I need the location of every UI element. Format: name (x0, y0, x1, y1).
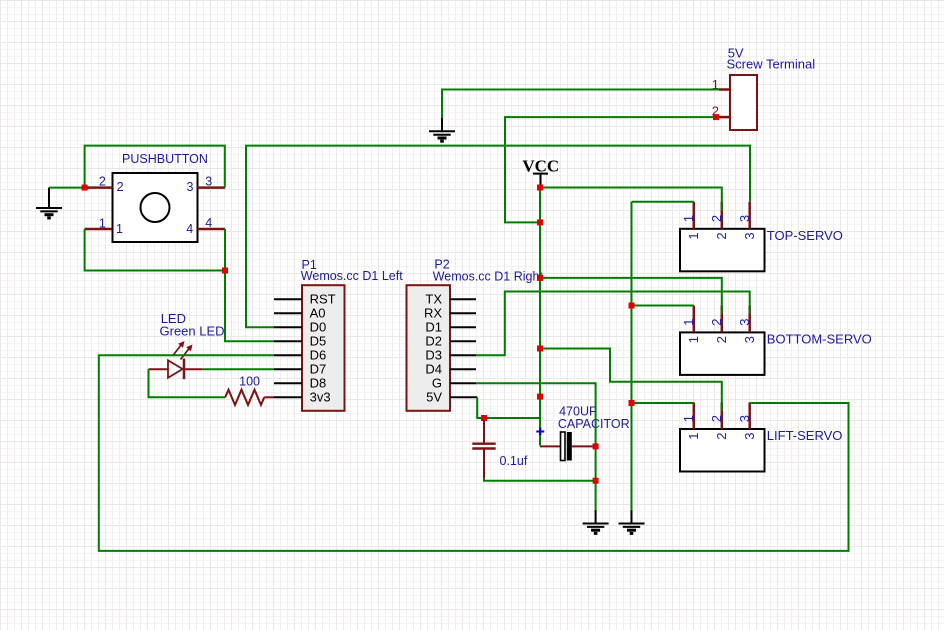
P1 pin A0 (274, 306, 326, 321)
svg-text:VCC: VCC (522, 156, 559, 175)
wire VCC vertical (539, 188, 541, 446)
P2 pin G (432, 376, 476, 391)
junction 0.1uf top (481, 415, 487, 421)
LIFT-SERVO pin 3 (737, 402, 757, 439)
svg-text:PUSHBUTTON: PUSHBUTTON (122, 152, 208, 166)
BOTTOM-SERVO pin 3 (737, 306, 757, 344)
LIFT-SERVO pin 2 (709, 402, 729, 439)
junction gnd net lift servo pin1 (629, 400, 635, 406)
ground symbol bottom right (servo gnd net) (619, 510, 645, 534)
wire to TOP-SERVO pin1 (632, 201, 694, 203)
wire pushbutton top loop pin2 to pin3 (85, 146, 225, 188)
resistor 100 (225, 374, 274, 405)
P2 pin 5V (426, 390, 477, 405)
svg-text:2: 2 (714, 232, 729, 239)
connector TOP-SERVO body (680, 228, 843, 271)
junction VCC P2 5V row (537, 394, 543, 400)
connector BOTTOM-SERVO body (680, 331, 872, 375)
svg-text:1: 1 (116, 222, 123, 236)
header P2 Wemos.cc D1 Right body (407, 258, 544, 411)
P1 pin RST (274, 292, 336, 307)
svg-text:100: 100 (239, 374, 260, 388)
junction VCC lift servo branch (537, 346, 543, 352)
svg-text:4: 4 (186, 222, 193, 236)
junction screw pin2 (713, 114, 719, 120)
svg-text:1: 1 (681, 215, 696, 222)
wire pushbutton pin1 and pin4 to D5 (85, 229, 225, 271)
svg-text:Wemos.cc D1 Right: Wemos.cc D1 Right (433, 269, 544, 283)
P2 pin D4 (425, 362, 476, 377)
P1 pin 3v3 (274, 390, 331, 405)
polarity plus mark 470UF (536, 428, 544, 436)
TOP-SERVO pin 3 (737, 202, 757, 240)
svg-text:2: 2 (709, 415, 724, 422)
svg-text:3: 3 (742, 433, 757, 440)
BOTTOM-SERVO pin 2 (709, 306, 729, 344)
connector LIFT-SERVO body (680, 428, 842, 472)
wire to LIFT-SERVO pin1 (632, 402, 694, 404)
screw terminal 5V body (727, 45, 816, 130)
svg-text:2: 2 (99, 174, 106, 188)
BOTTOM-SERVO pin 1 (681, 306, 701, 344)
pushbutton pin 1 stub (85, 217, 123, 236)
P1 pin D7 (274, 362, 326, 377)
svg-text:2: 2 (117, 180, 124, 194)
svg-text:1: 1 (681, 415, 696, 422)
svg-text:2: 2 (714, 433, 729, 440)
P1 pin D5 (274, 334, 326, 349)
P1 pin D0 (274, 320, 326, 335)
svg-text:D0: D0 (310, 320, 327, 335)
capacitor 0.1uf (472, 418, 528, 481)
svg-text:RST: RST (310, 292, 336, 307)
wire LED anode to resistor (149, 369, 226, 397)
P2 pin D3 (425, 348, 476, 363)
junction gnd net bottom servo pin1 (629, 303, 635, 309)
svg-text:Screw Terminal: Screw Terminal (727, 57, 816, 72)
svg-text:D1: D1 (425, 320, 442, 335)
pushbutton pin 2 stub (85, 174, 124, 194)
pushbutton pin 4 stub (186, 216, 225, 236)
svg-text:3: 3 (205, 174, 212, 188)
P2 pin RX (424, 306, 476, 321)
svg-text:G: G (432, 376, 442, 391)
wire servo gnd vertical (631, 202, 633, 510)
header P1 Wemos.cc D1 Left body (301, 258, 403, 411)
LIFT-SERVO pin 1 (681, 402, 701, 439)
TOP-SERVO pin 2 (709, 202, 729, 240)
LED D? green led (149, 311, 225, 379)
ground symbol bottom left (G net) (583, 510, 609, 534)
junction 470UF right (593, 443, 599, 449)
svg-text:2: 2 (714, 336, 729, 343)
screw terminal pin 2 (712, 104, 730, 119)
P2 pin D1 (425, 320, 476, 335)
svg-text:Wemos.cc D1 Left: Wemos.cc D1 Left (301, 269, 403, 283)
junction pushbutton pin1/pin4/D5 (222, 268, 228, 274)
wire P2 G to ground (476, 383, 596, 510)
svg-text:CAPACITOR: CAPACITOR (558, 417, 630, 431)
wire pushbutton pin2 to ground (49, 187, 85, 189)
P1 pin D6 (274, 348, 326, 363)
svg-text:D3: D3 (425, 348, 442, 363)
svg-text:D8: D8 (310, 376, 327, 391)
ground symbol top (screw terminal pin 1) (429, 118, 455, 142)
wire P2 5V to VCC/cap (477, 397, 540, 418)
svg-text:3v3: 3v3 (310, 390, 331, 405)
svg-text:3: 3 (737, 318, 752, 325)
svg-text:D4: D4 (425, 362, 442, 377)
svg-text:D7: D7 (310, 362, 327, 377)
wire VCC to TOP-SERVO pin2 (540, 188, 722, 212)
svg-text:RX: RX (424, 306, 442, 321)
junction VCC bottom servo branch (537, 275, 543, 281)
svg-text:3: 3 (737, 215, 752, 222)
svg-text:1: 1 (99, 217, 106, 231)
wire junction to P1 D5 (225, 271, 274, 342)
screw terminal pin 1 (712, 77, 730, 92)
P2 pin TX (425, 292, 476, 307)
svg-text:1: 1 (686, 336, 701, 343)
junction pushbutton pin2/gnd (82, 185, 88, 191)
wire screw pin1 to top ground (442, 90, 719, 119)
net flag VCC (522, 156, 559, 187)
svg-text:1: 1 (681, 318, 696, 325)
junction VCC 5V-in (537, 219, 543, 225)
svg-text:5V: 5V (426, 390, 442, 405)
wire VCC to BOTTOM-SERVO pin2 (540, 278, 722, 314)
svg-text:3: 3 (742, 336, 757, 343)
capacitor 470UF polarized (540, 405, 630, 461)
wire to BOTTOM-SERVO pin1 (632, 305, 694, 307)
svg-text:TX: TX (425, 292, 442, 307)
wire 0.1uf bottom to G net (484, 478, 596, 481)
svg-text:3: 3 (187, 180, 194, 194)
junction 0.1uf bottom G net (593, 478, 599, 484)
P2 pin D2 (425, 334, 476, 349)
svg-text:D5: D5 (310, 334, 327, 349)
pushbutton PUSHBUTTON body (113, 152, 208, 242)
svg-text:BOTTOM-SERVO: BOTTOM-SERVO (767, 331, 872, 346)
wire P1 D0 to TOP-SERVO pin3 (246, 146, 750, 328)
wire screw pin2 to VCC (505, 117, 716, 222)
svg-text:3: 3 (742, 232, 757, 239)
svg-text:TOP-SERVO: TOP-SERVO (767, 228, 843, 243)
ground symbol near pushbutton (36, 188, 62, 218)
svg-text:3: 3 (737, 415, 752, 422)
svg-text:4: 4 (205, 216, 212, 230)
P1 pin D8 (274, 376, 326, 391)
svg-text:2: 2 (709, 215, 724, 222)
svg-text:A0: A0 (310, 306, 326, 321)
junction VCC top (537, 185, 543, 191)
wire VCC to LIFT-SERVO pin2 (540, 349, 722, 412)
svg-text:0.1uf: 0.1uf (500, 454, 528, 468)
wire P1 D6 bottom loop to LIFT-SERVO pin3 (99, 355, 849, 551)
wire P2 D3 to BOTTOM-SERVO pin3 (476, 292, 750, 356)
svg-text:2: 2 (709, 318, 724, 325)
svg-text:1: 1 (686, 232, 701, 239)
svg-text:1: 1 (686, 433, 701, 440)
TOP-SERVO pin 1 (681, 202, 701, 240)
svg-text:D2: D2 (425, 334, 442, 349)
svg-text:Green LED: Green LED (160, 323, 225, 338)
wire LED cathode to P1 D7 (203, 368, 274, 370)
svg-text:D6: D6 (310, 348, 327, 363)
svg-text:LIFT-SERVO: LIFT-SERVO (767, 428, 843, 443)
pushbutton pin 3 stub (187, 174, 225, 194)
